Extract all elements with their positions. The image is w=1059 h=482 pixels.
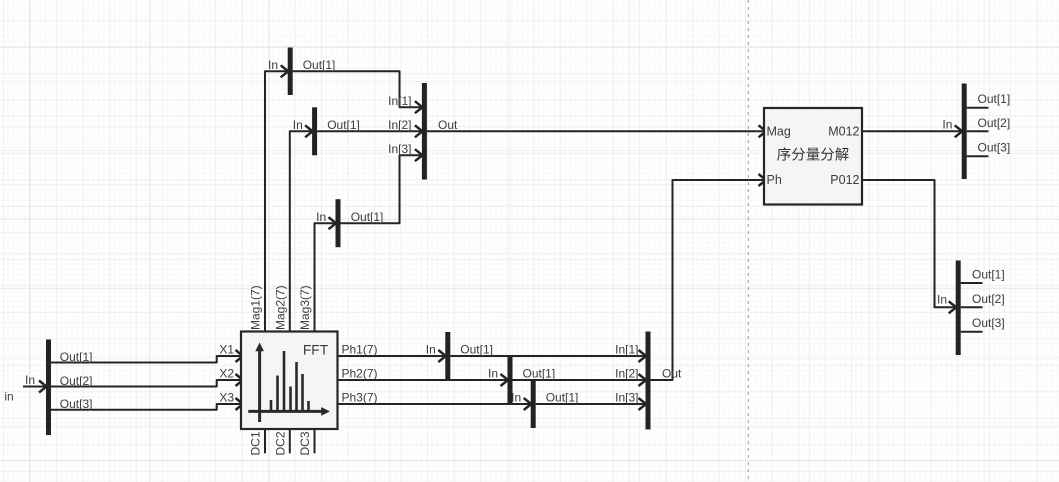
svg-text:Out[1]: Out[1] [546, 391, 579, 405]
wire Mag2(7) from FFT top to selector S2 [290, 131, 312, 331]
svg-text:in: in [4, 390, 13, 404]
arrow into D2 [955, 125, 963, 137]
svg-text:In: In [268, 58, 278, 72]
svg-text:Out[2]: Out[2] [978, 116, 1011, 130]
bus bars [46, 48, 967, 436]
arrow into U2 Ph [759, 174, 767, 186]
bus bar selector SC [531, 381, 536, 428]
arrowheads [39, 65, 962, 410]
arrow into FFT X2 [236, 374, 244, 386]
svg-text:Out[2]: Out[2] [972, 292, 1005, 306]
svg-text:DC1: DC1 [249, 431, 263, 455]
svg-text:Ph2(7): Ph2(7) [342, 367, 378, 381]
svg-text:DC2: DC2 [273, 431, 287, 455]
wire input in to demux D1 [23, 386, 46, 388]
FFT icon spectrum bars [271, 351, 309, 412]
svg-text:Out[1]: Out[1] [523, 367, 556, 381]
svg-text:Out: Out [438, 118, 458, 132]
bus bar selector SB [508, 357, 513, 405]
svg-text:In[1]: In[1] [615, 342, 638, 356]
arrow into M2 In[1] [639, 350, 647, 362]
svg-text:In: In [316, 210, 326, 224]
svg-text:In[3]: In[3] [388, 142, 411, 156]
wire S2 out to mux M1 In[2] [317, 130, 422, 132]
wire P012 to demux D3 [862, 180, 956, 307]
bus bar demux D3 [956, 261, 961, 356]
svg-text:X1: X1 [219, 342, 234, 356]
arrow into M2 In[2] [639, 374, 647, 386]
svg-text:Out[3]: Out[3] [978, 141, 1011, 155]
arrow into D1 [39, 381, 47, 393]
wire SC out to mux M2 In[3] [536, 403, 646, 405]
svg-text:Out[3]: Out[3] [60, 397, 93, 411]
page break dashed line [747, 0, 749, 482]
wire SA out to mux M2 In[1] [450, 355, 645, 357]
wire DC3 stub [314, 429, 316, 453]
FFT icon vertical axis [258, 350, 261, 422]
wire DC2 stub [289, 429, 291, 453]
wire DC1 stub [264, 429, 266, 453]
svg-text:Ph1(7): Ph1(7) [342, 342, 378, 356]
svg-text:In: In [511, 391, 521, 405]
wire D2 Out[1] stub [967, 107, 989, 109]
wire D2 Out[2] stub [967, 130, 989, 132]
arrow into M1 In[2] [415, 125, 423, 137]
wire D3 Out[2] stub [961, 306, 983, 308]
svg-text:P012: P012 [830, 173, 859, 187]
arrow into U2 Mag [759, 125, 767, 137]
svg-text:Out[1]: Out[1] [327, 118, 360, 132]
wire D3 Out[1] stub [961, 282, 983, 284]
wire D1 Out[3] to FFT X3 [51, 404, 241, 410]
wire M012 to demux D2 [862, 130, 962, 132]
FFT icon horizontal axis [248, 410, 322, 413]
svg-text:In: In [426, 342, 436, 356]
svg-text:Out[3]: Out[3] [972, 316, 1005, 330]
wire D1 Out[2] to FFT X2 [51, 380, 241, 387]
svg-text:In: In [942, 117, 952, 131]
svg-text:Mag2(7): Mag2(7) [273, 285, 287, 330]
arrow into S2 [305, 125, 313, 137]
svg-text:In: In [293, 118, 303, 132]
svg-text:Out[1]: Out[1] [972, 268, 1005, 282]
svg-text:In[2]: In[2] [615, 367, 638, 381]
arrow into FFT X3 [236, 398, 244, 410]
arrow into S3 [329, 217, 337, 229]
svg-text:Ph: Ph [767, 173, 782, 187]
svg-text:In: In [488, 367, 498, 381]
label 序分量分解 (U2 block name, vector glyphs) [777, 147, 848, 160]
wire D3 Out[3] stub [961, 331, 983, 333]
bus bar demux D2 [962, 84, 967, 180]
wire Mag3(7) from FFT top to selector S3 [315, 223, 336, 331]
svg-text:FFT: FFT [303, 343, 329, 358]
bus bar mux M2 [646, 332, 651, 430]
block U2 序分量分解 [764, 108, 862, 205]
svg-text:Mag1(7): Mag1(7) [249, 285, 263, 330]
arrow into M1 In[1] [415, 101, 423, 113]
svg-text:Out: Out [662, 367, 682, 381]
arrow into D3 [949, 301, 957, 313]
svg-text:In: In [937, 292, 947, 306]
bus bar selector S2 [312, 107, 317, 155]
wire FFT Ph3(7) to selector SC [338, 403, 531, 405]
arrow into M2 In[3] [639, 398, 647, 410]
wire FFT Ph1(7) to selector SA [338, 355, 446, 357]
bus bar mux M1 [422, 83, 427, 180]
svg-text:Mag3(7): Mag3(7) [298, 285, 312, 330]
wire Mag1(7) from FFT top to selector S1 [265, 71, 288, 331]
wire M2 Out to U2 Ph [651, 180, 765, 380]
svg-text:Out[1]: Out[1] [60, 350, 93, 364]
wire SB out to mux M2 In[2] [513, 379, 646, 381]
wire/port labels [4, 58, 1010, 456]
svg-text:In[2]: In[2] [388, 118, 411, 132]
svg-text:DC3: DC3 [298, 431, 312, 455]
svg-text:Out[1]: Out[1] [978, 92, 1011, 106]
wire M1 Out to U2 Mag [427, 130, 764, 132]
arrow into M1 In[3] [415, 149, 423, 161]
wire S3 out to mux M1 In[3] [341, 155, 422, 223]
arrow into FFT X1 [236, 350, 244, 362]
svg-text:In[1]: In[1] [388, 94, 411, 108]
svg-text:Mag: Mag [767, 124, 791, 138]
svg-text:Out[1]: Out[1] [351, 210, 384, 224]
wire D1 Out[1] to FFT X1 [51, 356, 241, 363]
svg-text:X3: X3 [219, 391, 234, 405]
wire FFT Ph2(7) to selector SB [338, 379, 508, 381]
bus bar demux D1 (input) [46, 340, 51, 436]
arrow into S1 [281, 65, 289, 77]
svg-text:In[3]: In[3] [615, 391, 638, 405]
svg-text:In: In [25, 373, 35, 387]
svg-text:M012: M012 [828, 124, 859, 138]
svg-text:Ph3(7): Ph3(7) [342, 391, 378, 405]
bus bar selector S3 [336, 199, 341, 247]
bus bar selector SA [445, 332, 450, 380]
svg-text:X2: X2 [219, 367, 234, 381]
arrow into SA [438, 350, 446, 362]
arrow into SB [501, 374, 509, 386]
svg-text:Out[1]: Out[1] [460, 342, 493, 356]
svg-text:Out[1]: Out[1] [303, 58, 336, 72]
wire D2 Out[3] stub [967, 155, 989, 157]
block U1 FFT [241, 332, 338, 430]
wire S1 out to mux M1 In[1] [293, 71, 422, 107]
arrow into SC [524, 398, 532, 410]
svg-text:Out[2]: Out[2] [60, 374, 93, 388]
bus bar selector S1 [288, 48, 293, 96]
